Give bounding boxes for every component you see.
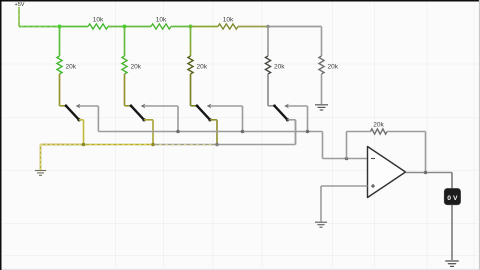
- svg-text:20k: 20k: [66, 63, 77, 70]
- svg-text:10k: 10k: [156, 16, 167, 23]
- svg-text:10k: 10k: [223, 16, 234, 23]
- svg-text:20k: 20k: [197, 63, 208, 70]
- svg-text:20k: 20k: [373, 121, 384, 128]
- svg-text:20k: 20k: [131, 63, 142, 70]
- svg-text:20k: 20k: [274, 63, 285, 70]
- svg-text:0 V: 0 V: [447, 195, 458, 202]
- svg-text:20k: 20k: [328, 63, 339, 70]
- svg-text:10k: 10k: [93, 16, 104, 23]
